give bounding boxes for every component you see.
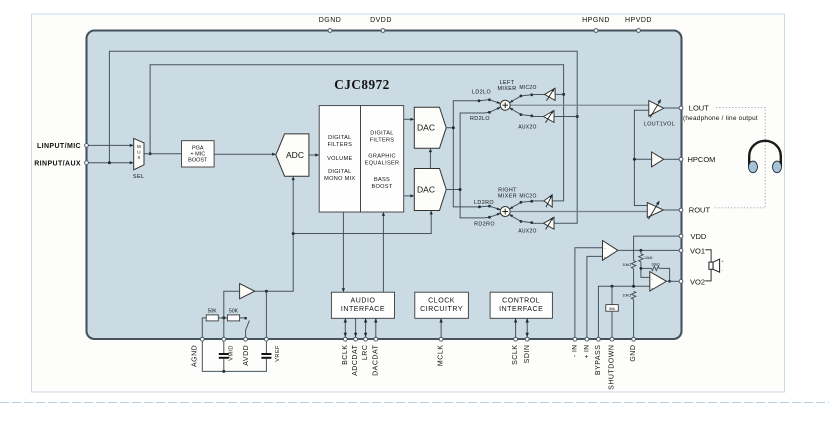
pin AVDD — [243, 337, 250, 365]
switch AUX2O (right) — [509, 213, 544, 224]
svg-text:ADCDAT: ADCDAT — [352, 344, 359, 375]
pin DGND — [319, 17, 342, 33]
wire divider to bias node — [633, 269, 635, 287]
block digital filters right (graphic equaliser / bass boost) — [361, 106, 404, 212]
svg-text:LOUT1VOL: LOUT1VOL — [644, 122, 675, 128]
capacitor VREF — [261, 341, 271, 358]
resistor divider bottom — [623, 291, 636, 299]
switch LD2RO — [478, 205, 501, 211]
wire speaker bracket — [705, 250, 711, 281]
svg-text:AGND: AGND — [192, 345, 199, 367]
svg-text:DACDAT: DACDAT — [372, 344, 379, 375]
switch LD2LO — [478, 98, 501, 104]
svg-text:MONO MIX: MONO MIX — [324, 176, 355, 182]
svg-text:50k: 50k — [609, 307, 615, 311]
svg-text:BOOST: BOOST — [371, 184, 392, 190]
svg-text:VO2: VO2 — [690, 277, 705, 286]
switch MIC2O (right) — [509, 200, 544, 210]
pin SCLK — [512, 318, 519, 365]
svg-text:CONTROL: CONTROL — [502, 297, 540, 304]
speaker — [709, 259, 725, 273]
svg-text:BCLK: BCLK — [342, 345, 349, 365]
wire LINPUT to MUX — [89, 144, 134, 147]
pin SDIN — [524, 318, 531, 363]
pin DVDD — [370, 17, 392, 33]
switch AVDD — [240, 317, 250, 337]
svg-text:MIXER: MIXER — [497, 86, 516, 92]
wire AUX tap to output switches — [108, 51, 579, 223]
pin LOUT — [679, 104, 709, 113]
wire PGA to ADC — [214, 153, 276, 156]
wire 50K junction to VMID pin — [218, 316, 227, 337]
chip body CJC8972 — [87, 31, 682, 340]
wire ADC to filters — [309, 153, 319, 156]
svg-text:CIRCUITRY: CIRCUITRY — [420, 306, 463, 313]
block AUDIO INTERFACE — [331, 292, 394, 318]
capacitor VMID — [219, 341, 229, 371]
wire filters to DAC2 — [404, 194, 415, 197]
switch RD2RO — [484, 212, 501, 219]
svg-text:SCLK: SCLK — [512, 345, 519, 365]
pin BCLK — [342, 318, 349, 365]
adc block — [276, 134, 309, 176]
wire bias node (BYPASS) — [598, 285, 649, 337]
svg-text:LRC: LRC — [362, 345, 369, 361]
pin BYPASS — [595, 337, 602, 375]
wire SHUTDOWN — [611, 286, 613, 337]
pin VO2 — [679, 277, 705, 286]
wire audio interface to filters (up) — [382, 212, 385, 292]
pin GND — [630, 337, 637, 361]
amp HPCOM — [652, 152, 679, 167]
svg-text:AUDIO: AUDIO — [351, 297, 376, 304]
wire RINPUT to MUX — [89, 161, 134, 164]
svg-text:RIGHT: RIGHT — [498, 187, 517, 193]
wire filters to audio interface (down) — [342, 212, 345, 292]
wire DAC2 top to DAC1 bottom — [429, 148, 432, 168]
switch RD2LO — [484, 106, 501, 114]
amp AUX2O left — [544, 110, 578, 123]
svg-text:AUX2O: AUX2O — [518, 228, 536, 234]
op-amp speaker A — [603, 241, 618, 261]
pin +IN — [583, 337, 590, 358]
svg-text:(headphone / line output: (headphone / line output — [683, 115, 758, 122]
svg-text:LINPUT/MIC: LINPUT/MIC — [37, 143, 81, 150]
svg-text:10kΩ: 10kΩ — [623, 263, 632, 267]
svg-text:MIC2O: MIC2O — [519, 194, 536, 200]
pin LRC — [362, 318, 369, 360]
svg-text:VDD: VDD — [691, 232, 707, 241]
svg-text:DVDD: DVDD — [370, 17, 392, 24]
svg-text:50K: 50K — [229, 309, 239, 315]
svg-text:DAC: DAC — [417, 123, 435, 133]
svg-text:10kΩ: 10kΩ — [651, 262, 660, 266]
wire output feed vertical (LOUT1VOL/HPCOM/ROUT1VOL) — [633, 110, 652, 205]
svg-text:10kΩ: 10kΩ — [623, 294, 632, 298]
block CONTROL INTERFACE — [490, 292, 552, 318]
pin AGND — [192, 337, 205, 367]
dac U3 (right) — [414, 169, 446, 211]
wire +IN to speaker amp — [587, 256, 603, 337]
pin ROUT — [679, 206, 710, 215]
dac U2 (left) — [414, 107, 446, 148]
wire feedback to VO2 — [659, 268, 671, 282]
svg-text:U: U — [137, 150, 140, 155]
bottom rule — [0, 402, 829, 404]
svg-text:BASS: BASS — [374, 177, 390, 183]
wire divider to GND — [633, 299, 635, 337]
svg-text:GRAPHIC: GRAPHIC — [368, 153, 396, 159]
wire VMID buffer to bias bus and DAC2 — [255, 211, 433, 293]
op-amp speaker B — [650, 272, 667, 291]
pin VREF — [265, 337, 281, 361]
svg-text:MIXER: MIXER — [498, 194, 517, 200]
svg-text:MCLK: MCLK — [438, 345, 445, 366]
pin VO1 — [679, 246, 705, 255]
pin HPCOM — [679, 155, 715, 164]
amp MIC2O right — [544, 195, 553, 208]
svg-text:ADC: ADC — [286, 150, 304, 160]
mux U1 — [134, 138, 144, 169]
svg-text:DIGITAL: DIGITAL — [328, 169, 351, 175]
svg-text:BOOST: BOOST — [188, 158, 208, 164]
pin ADCDAT — [352, 318, 359, 376]
svg-text:VO1: VO1 — [690, 246, 705, 255]
svg-text:AUX2O: AUX2O — [518, 125, 536, 131]
buffer amp VMID — [240, 284, 255, 299]
switch MIC2O (left) — [509, 93, 545, 103]
svg-text:10kΩ: 10kΩ — [644, 256, 653, 260]
block digital filters left — [319, 106, 360, 212]
svg-text:RD2LO: RD2LO — [470, 116, 490, 122]
pin SHUTDOWN — [609, 337, 616, 390]
svg-text:50K: 50K — [208, 309, 218, 315]
svg-text:SEL: SEL — [133, 174, 145, 180]
pin RINPUT/AUX — [34, 160, 88, 167]
wire right mixer output — [510, 211, 647, 213]
wire left mixer output — [510, 104, 649, 106]
svg-text:EQUALISER: EQUALISER — [365, 160, 400, 166]
pin MCLK — [438, 318, 445, 366]
pin VMID — [222, 337, 234, 360]
resistor 50K (right) — [227, 309, 239, 321]
svg-text:CJC8972: CJC8972 — [334, 77, 390, 92]
svg-text:FILTERS: FILTERS — [370, 137, 395, 143]
label RIGHT MIXER — [498, 187, 517, 199]
svg-text:VREF: VREF — [275, 345, 281, 362]
wire VDD to divider — [634, 236, 679, 261]
wire external ground bus — [202, 341, 266, 373]
svg-text:MIC2O: MIC2O — [519, 85, 536, 91]
svg-text:INTERFACE: INTERFACE — [341, 306, 385, 313]
svg-text:VOLUME: VOLUME — [327, 156, 352, 162]
svg-text:AVDD: AVDD — [243, 345, 250, 366]
block CLOCK CIRCUITRY — [415, 292, 469, 318]
wire AGND to 50K — [202, 318, 206, 337]
svg-text:ROUT: ROUT — [689, 206, 711, 215]
wire filters to DAC1 — [404, 118, 415, 121]
resistor divider top — [623, 261, 636, 269]
resistor VO1 tap — [639, 250, 653, 261]
svg-text:SDIN: SDIN — [524, 345, 531, 364]
pin -IN — [571, 337, 578, 357]
svg-text:LOUT: LOUT — [689, 104, 709, 113]
resistor 50K (left) — [206, 309, 218, 321]
wire MIC tap to output switches — [149, 65, 565, 201]
wire amp A output to VO1 — [618, 249, 679, 252]
svg-text:RINPUT/AUX: RINPUT/AUX — [34, 160, 81, 167]
wire DAC2 output to routing bus — [446, 113, 484, 218]
svg-text:X: X — [137, 155, 140, 160]
svg-text:- IN: - IN — [571, 345, 578, 357]
svg-text:GND: GND — [630, 345, 637, 362]
pin HPGND — [582, 17, 610, 33]
wire amp B output to VO2 — [666, 280, 679, 282]
svg-text:HPCOM: HPCOM — [688, 155, 716, 164]
svg-text:RD2RO: RD2RO — [474, 221, 495, 227]
svg-text:HPVDD: HPVDD — [625, 17, 652, 24]
pin DACDAT — [372, 318, 379, 376]
svg-text:LD2RO: LD2RO — [474, 200, 494, 206]
label LEFT MIXER — [497, 80, 516, 92]
svg-text:LEFT: LEFT — [500, 80, 515, 86]
svg-text:DAC: DAC — [417, 185, 435, 195]
wire DAC1 output to routing bus — [446, 101, 479, 207]
amp LOUT1VOL — [649, 99, 679, 118]
switch AUX2O (left) — [509, 107, 544, 118]
amp ROUT1VOL — [647, 201, 679, 220]
wire feedback node — [640, 262, 652, 278]
left mixer summer — [500, 100, 510, 110]
dotted connection LOUT to headphone — [713, 108, 765, 208]
svg-text:CLOCK: CLOCK — [428, 297, 455, 304]
block shutdown 50k — [606, 305, 619, 312]
pin LINPUT/MIC — [37, 143, 88, 150]
svg-text:DGND: DGND — [319, 17, 342, 24]
amp MIC2O left — [545, 88, 564, 101]
pin VDD — [679, 232, 707, 241]
wire -IN to speaker amp — [575, 248, 603, 337]
headphone icon — [749, 141, 782, 173]
svg-text:LD2LO: LD2LO — [472, 90, 491, 96]
resistor feedback — [651, 262, 660, 270]
svg-text:INTERFACE: INTERFACE — [499, 306, 543, 313]
block PGA + MIC BOOST — [182, 141, 215, 167]
svg-text:BYPASS: BYPASS — [595, 345, 602, 376]
svg-text:HPGND: HPGND — [582, 17, 610, 24]
svg-text:DIGITAL: DIGITAL — [370, 130, 393, 136]
svg-text:DIGITAL: DIGITAL — [328, 135, 351, 141]
amp AUX2O right — [544, 217, 555, 230]
svg-text:+ IN: + IN — [583, 345, 590, 359]
svg-text:VMID: VMID — [228, 345, 234, 361]
right mixer summer — [500, 207, 510, 217]
wire VREF to buffer output — [265, 291, 267, 337]
wire MUX out to PGA — [144, 153, 182, 155]
svg-text:SHUTDOWN: SHUTDOWN — [609, 345, 616, 390]
wire bias bus to ADC bottom — [292, 176, 295, 233]
svg-text:M: M — [137, 144, 141, 149]
pin HPVDD — [625, 17, 652, 33]
wire VMID divider to buffer — [224, 291, 240, 318]
svg-text:FILTERS: FILTERS — [327, 142, 352, 148]
